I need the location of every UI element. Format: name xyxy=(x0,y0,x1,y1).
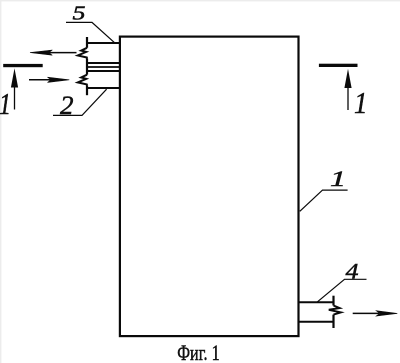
section plane bar left xyxy=(3,64,43,67)
outlet pipe 4 upper wall xyxy=(299,301,335,303)
outlet pipe 4 lower wall xyxy=(299,321,335,323)
page edge shading top xyxy=(0,0,400,1)
section arrow right shaft xyxy=(347,79,349,110)
vessel body rectangle 1 xyxy=(120,37,299,337)
outflow arrow from pipe 5 shaft xyxy=(49,52,77,54)
outflow arrow from pipe 5 head xyxy=(30,50,52,55)
pipe 5 upper wall xyxy=(87,42,121,44)
section arrow left shaft xyxy=(14,79,16,110)
leader line for label 4 xyxy=(317,279,367,302)
leader line for label 1 xyxy=(300,190,348,211)
section arrow left head xyxy=(11,68,18,87)
pipe break line upper tick xyxy=(86,37,88,48)
pipe break line middle segment xyxy=(86,59,88,75)
separator line between pipes xyxy=(87,66,121,68)
svg-text:5: 5 xyxy=(73,2,86,24)
svg-text:Фиг. 1: Фиг. 1 xyxy=(177,340,220,363)
section plane bar right xyxy=(319,64,358,67)
section arrow right head xyxy=(344,69,351,88)
pipe 2 lower wall xyxy=(87,87,121,89)
svg-text:1: 1 xyxy=(330,166,346,191)
outflow arrow from pipe 4 head xyxy=(376,311,397,316)
inflow arrow to pipe 2 head xyxy=(48,77,70,82)
zigzag break in pipe 5 xyxy=(78,48,87,59)
pipe break line lower tick xyxy=(86,85,88,95)
inflow arrow to pipe 2 shaft xyxy=(29,79,52,81)
outflow arrow from pipe 4 shaft xyxy=(353,312,379,314)
svg-text:1: 1 xyxy=(0,86,11,121)
pipe 4 break line upper tick xyxy=(332,296,334,306)
leader line for label 2 xyxy=(53,89,107,115)
pipe 2 upper wall xyxy=(87,70,121,72)
pipe 5 lower wall xyxy=(87,62,121,64)
svg-text:1: 1 xyxy=(354,85,368,120)
leader line for label 5 xyxy=(66,22,115,43)
zigzag break in pipe 4 xyxy=(329,306,341,315)
pipe 4 break line lower tick xyxy=(332,315,334,328)
page edge shading left xyxy=(0,0,1,363)
zigzag break in pipe 2 xyxy=(78,75,87,86)
